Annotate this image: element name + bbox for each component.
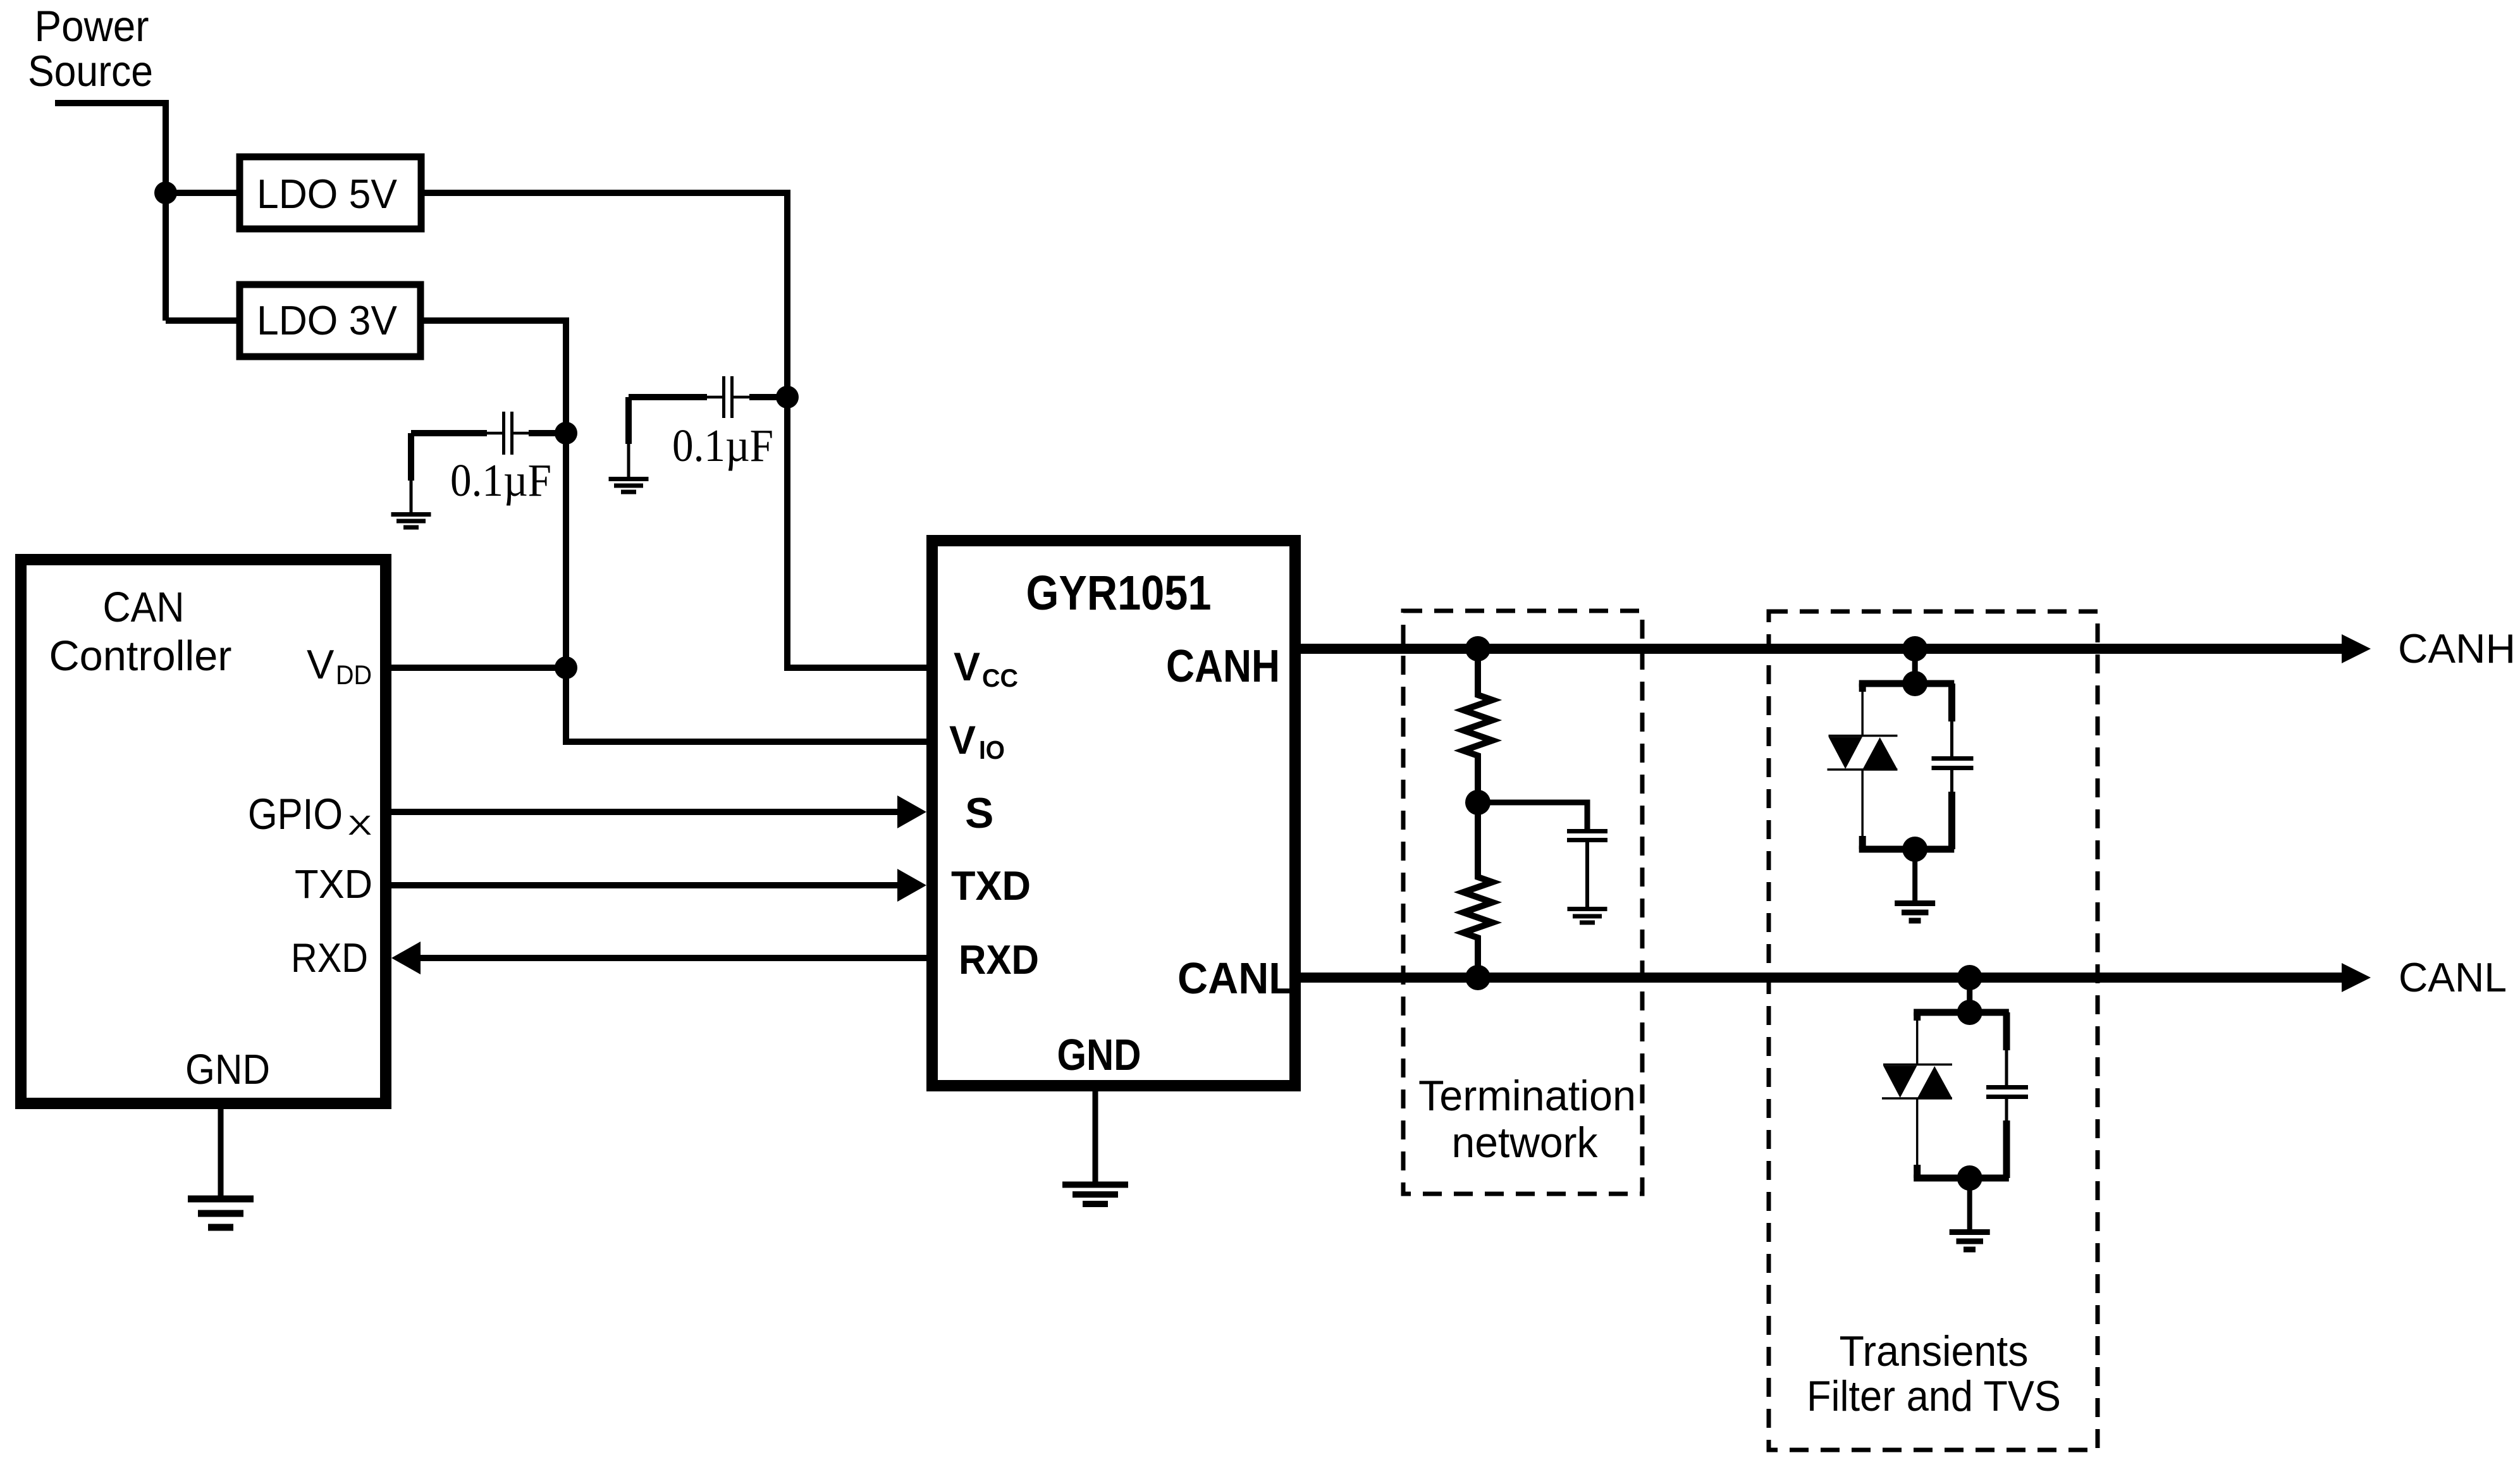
regulator LDO 3V [240,285,421,357]
wire CANL bus [1301,973,2344,983]
wire CANH bus [1301,644,2344,654]
wire RXD to RXD with arrow into controller [417,955,926,961]
wire LDO 3V output to VIO [424,321,926,742]
svg-text:CC: CC [982,665,1018,692]
ground termination [1568,909,1607,923]
junction C2 to 5V rail [776,386,799,408]
svg-text:S: S [965,789,993,837]
diode D1 bidirectional TVS [1829,735,1898,737]
svg-text:TXD: TXD [951,862,1031,909]
junction R1/R2 midpoint [1465,790,1490,815]
junction bottom rail [1902,837,1927,862]
svg-text:Termination: Termination [1418,1072,1636,1120]
svg-text:GND: GND [1057,1030,1141,1079]
svg-text:0.1µF: 0.1µF [450,455,551,506]
junction power node [154,181,177,204]
wire GPIOx to S with arrow [391,809,900,815]
capacitor C1 0.1uF on 3V rail [411,412,566,512]
junction C1 to 3V rail [555,422,577,445]
ground TVS cell [1895,904,1935,921]
wire VDD to 3V rail [391,665,566,671]
svg-text:GYR1051: GYR1051 [1026,566,1212,620]
svg-text:RXD: RXD [291,935,368,981]
svg-text:LDO 3V: LDO 3V [257,297,398,343]
wire left branch lower [1861,770,1864,838]
wire midpoint to split capacitor [1478,802,1587,829]
ground GYR1051 GND [1093,1086,1098,1182]
svg-text:Controller: Controller [49,632,232,680]
svg-text:Filter and TVS: Filter and TVS [1807,1372,2061,1420]
wire bottom rail [1859,846,1955,853]
svg-text:GPIO: GPIO [248,790,343,838]
svg-text:0.1µF: 0.1µF [672,420,773,471]
resistor R2 [1463,802,1492,978]
svg-text:CANL: CANL [2399,954,2507,1000]
wire top rail [1859,680,1955,687]
svg-text:V: V [307,641,335,687]
svg-text:Power: Power [35,2,149,51]
svg-text:RXD: RXD [959,936,1039,983]
svg-text:CANH: CANH [1166,641,1280,692]
svg-text:IO: IO [979,735,1005,764]
resistor R1 [1463,649,1492,802]
wire TXD to TXD with arrow [391,882,900,888]
junction CANL termination [1465,965,1490,990]
transients filter dashed box [1769,611,2098,1450]
svg-text:DD: DD [336,660,372,691]
svg-text:X: X [348,810,372,841]
wire power source to LDO inputs [55,103,237,321]
wire LDO 5V output to VCC [424,193,926,668]
junction on bus [1902,636,1927,661]
junction top rail [1902,671,1927,696]
capacitor C4 right branch [1948,684,1955,721]
regulator LDO 5V [240,157,421,229]
ground controller GND [218,1109,224,1196]
TVS cell on CANL (D2 + C5) [1882,965,2028,1249]
ground for C2 [609,479,649,493]
svg-text:TXD: TXD [295,861,372,907]
capacitor C2 0.1uF on 5V rail [629,376,787,477]
arrow CANL output [2342,963,2371,992]
svg-text:Transients: Transients [1840,1327,2029,1375]
termination network dashed box [1403,611,1642,1194]
ground for C1 [391,515,431,528]
svg-text:CANL: CANL [1177,954,1294,1003]
transceiver GYR1051 box U2 [932,541,1295,1086]
wire to rail [1912,649,1918,684]
label Termination network [1418,1072,1636,1167]
CAN Controller box U1 [21,560,386,1103]
svg-text:V: V [954,645,980,689]
label Transients Filter and TVS [1807,1327,2061,1420]
svg-text:Source: Source [28,47,153,95]
svg-text:LDO 5V: LDO 5V [257,171,398,217]
arrow CANH output [2342,634,2371,663]
svg-text:CAN: CAN [103,584,185,631]
svg-text:V: V [949,718,976,763]
svg-text:network: network [1452,1119,1599,1167]
wire left branch upper [1861,684,1864,736]
node Power Source label [28,2,153,95]
capacitor C3 split termination [1567,832,1607,840]
svg-text:CANH: CANH [2398,625,2516,672]
wire to ground [1912,849,1917,900]
junction VDD node [555,656,577,679]
svg-text:GND: GND [185,1046,270,1093]
TVS cell on CANH (D1 + C4) [1828,636,1974,921]
junction CANH termination [1465,636,1490,661]
